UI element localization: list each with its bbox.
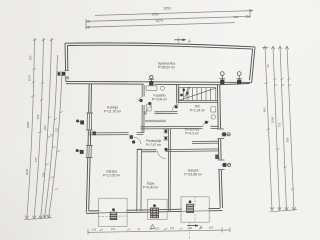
svg-text:775: 775	[278, 122, 282, 127]
svg-text:P=11,76 m²: P=11,76 m²	[104, 110, 122, 114]
svg-text:294: 294	[188, 226, 193, 230]
svg-text:140: 140	[92, 228, 97, 232]
svg-text:151: 151	[111, 227, 116, 231]
svg-text:P=4,3 m²: P=4,3 m²	[185, 132, 199, 136]
svg-text:490: 490	[43, 125, 47, 130]
svg-text:490: 490	[263, 107, 267, 112]
svg-text:P=4,04 m²: P=4,04 m²	[152, 98, 168, 102]
svg-text:A: A	[200, 225, 203, 230]
svg-text:140: 140	[209, 226, 214, 230]
svg-text:1575: 1575	[28, 74, 32, 81]
svg-text:150: 150	[155, 227, 160, 231]
svg-text:775: 775	[34, 157, 38, 162]
svg-text:151: 151	[54, 127, 58, 132]
svg-text:1650: 1650	[163, 7, 171, 11]
svg-text:126: 126	[170, 226, 175, 230]
svg-text:29: 29	[266, 64, 270, 68]
svg-text:A: A	[188, 38, 191, 43]
svg-text:P=6,00 m²: P=6,00 m²	[143, 186, 159, 190]
svg-text:290: 290	[29, 55, 33, 60]
svg-text:21: 21	[49, 133, 53, 137]
svg-text:298: 298	[286, 137, 290, 142]
svg-text:296: 296	[234, 15, 239, 19]
svg-text:1080: 1080	[271, 116, 275, 123]
svg-text:P=1,04 m²: P=1,04 m²	[190, 109, 206, 113]
svg-text:P=17,00 m²: P=17,00 m²	[103, 174, 121, 178]
svg-text:1080: 1080	[26, 121, 30, 128]
svg-text:1470: 1470	[155, 19, 163, 23]
svg-text:298: 298	[36, 114, 40, 119]
svg-text:P=7,47 m²: P=7,47 m²	[146, 143, 162, 147]
svg-text:P=55,57 m²: P=55,57 m²	[158, 66, 176, 70]
svg-text:103: 103	[42, 172, 46, 177]
svg-text:1000: 1000	[25, 168, 29, 175]
svg-text:1400: 1400	[151, 13, 159, 17]
svg-text:P=23,88 m²: P=23,88 m²	[184, 173, 202, 177]
